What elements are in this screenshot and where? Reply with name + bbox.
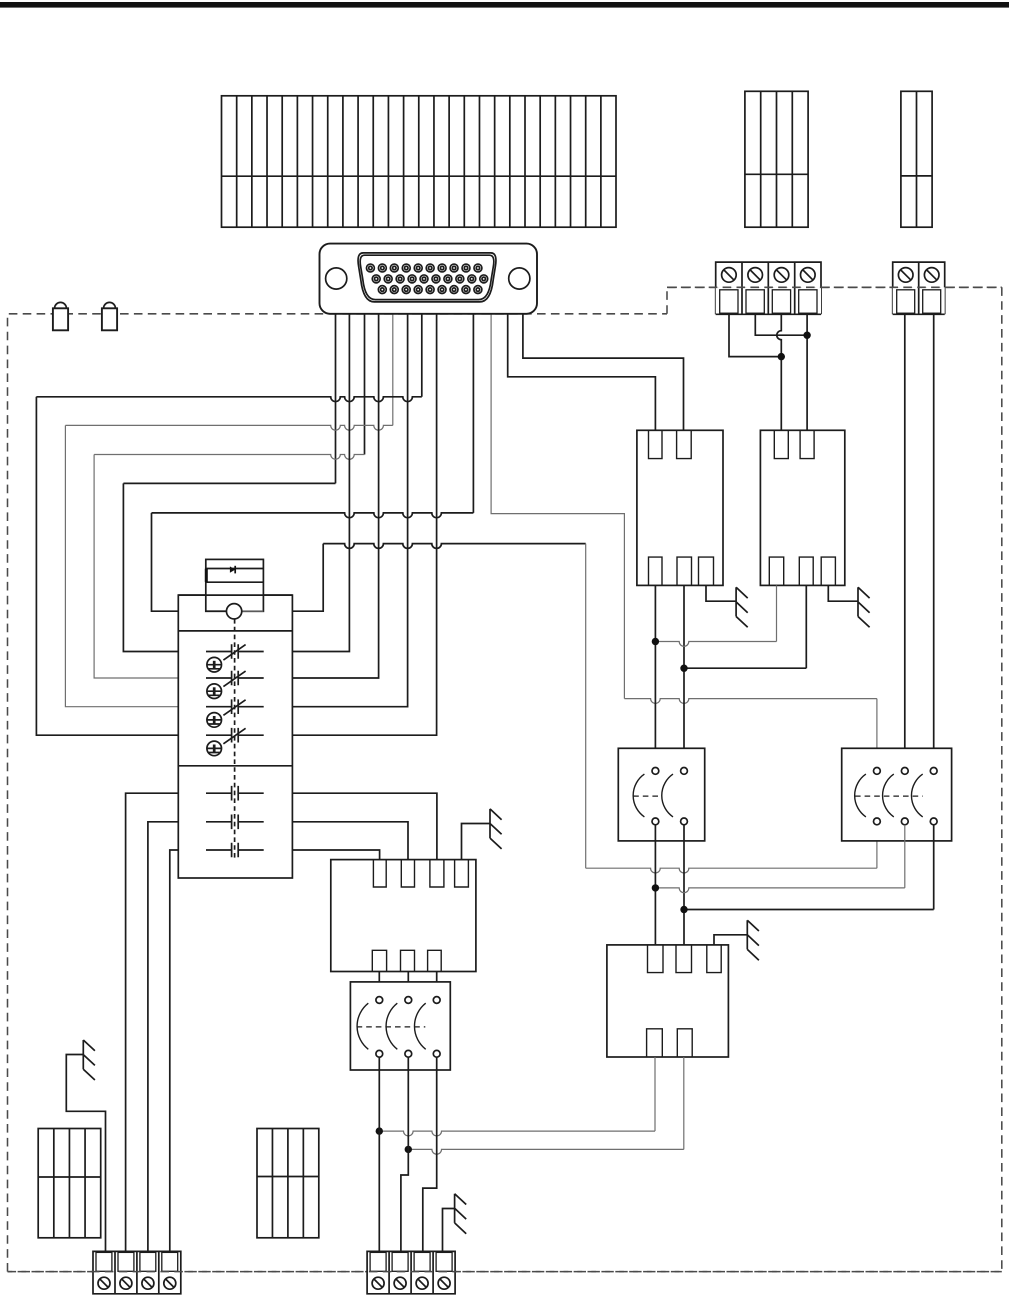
wire driver to S3 pole1 <box>378 972 380 997</box>
wire S2 pole3 link <box>684 825 934 910</box>
wire row b1 to driver A3 <box>292 793 437 859</box>
terminal block TB2 (2 screws) <box>893 262 945 314</box>
wire pin9 to wiper (net E) <box>152 310 474 611</box>
LED DS1 <box>53 302 68 330</box>
wire TB1-2 jumper <box>755 314 807 335</box>
top page rule <box>0 2 1009 8</box>
relay module K3 <box>607 945 729 1057</box>
junction dot TB1-1/3 <box>778 353 785 360</box>
chassis ground GND1 (K1) <box>736 587 748 627</box>
wire TB1-3 to K2 coil a (hops left) <box>777 314 782 430</box>
wire TB2-2 to S2 pole3 <box>933 314 935 767</box>
LED DS2 <box>102 302 117 330</box>
wire K3 out2 link (gray) <box>408 1057 684 1154</box>
wire K3 pin3 to ground <box>714 935 747 945</box>
chassis ground GND5 (TB4) <box>455 1194 467 1234</box>
variable-arrow slashes <box>223 645 245 744</box>
junction dot S1b <box>680 906 687 913</box>
wire pin11 to relay K1 coil a <box>508 310 656 430</box>
wire ground to TB3-1 <box>66 1055 105 1252</box>
wire S3 pole3 to TB4-3 <box>423 1057 437 1251</box>
terminal block TB3 (4 screws) <box>93 1251 181 1293</box>
wire wiper feedback (net F lower, gray) <box>586 544 877 873</box>
relay coil K1 <box>637 430 723 585</box>
junction dot S3a <box>376 1127 383 1134</box>
wire S3 pole1 to TB4-1 <box>378 1057 380 1251</box>
wire pin6 to row3 right <box>292 310 407 707</box>
contact block S1 (DPST) <box>618 748 704 841</box>
junction dot S1a <box>652 884 659 891</box>
chassis ground GND6 (TB3) <box>83 1040 95 1080</box>
trimmer capacitor bank plates <box>206 644 264 857</box>
legend table X5 (4 columns) <box>257 1129 319 1238</box>
wire row b3 to driver A1 <box>292 850 379 860</box>
wire pin8 to row4 right <box>292 310 436 735</box>
terminal block TB4 (4 screws) <box>367 1251 455 1293</box>
wire wiper feedback (net F upper) <box>292 544 585 612</box>
terminal block TB1 (4 screws) <box>716 262 821 314</box>
wire pin4 to row2 right <box>292 310 378 678</box>
motor M symbol (circle) <box>226 604 241 619</box>
diode D1 symbol <box>230 566 235 572</box>
wire driver to S3 pole2 <box>407 972 409 997</box>
wire pin12 to relay K1 coil b <box>523 310 684 430</box>
M1 internal link (dashed) <box>234 619 236 858</box>
pin-assignment table X1 (26 columns) <box>222 96 617 227</box>
wire pin3 stub <box>364 310 366 455</box>
wire row b1 to TB3-2 <box>126 793 179 1251</box>
contact block S3 (3PST) <box>350 982 450 1070</box>
wire K2 pin3 to ground <box>828 585 858 601</box>
diode module D1 box <box>178 559 292 611</box>
wire TB2-1 to S2 pole2 <box>904 314 906 767</box>
CN1 D-insert <box>358 253 496 302</box>
enclosure dashed border (top-left segment) <box>8 314 668 1272</box>
wire K2 pin1 link to K1 net (gray) <box>655 585 776 646</box>
CN1 mounting hole left <box>326 268 347 289</box>
wire pin2 to row1 right <box>292 310 349 652</box>
wire wiper to right (gray) <box>242 610 264 612</box>
wire S1 pole1 to K3 top1 <box>654 825 656 945</box>
chassis ground GND4 (K3) <box>747 920 759 960</box>
dashed border over TB3/TB4 <box>8 1271 1002 1273</box>
wire row b3 to TB3-4 <box>170 850 179 1251</box>
junction dot S3b <box>405 1146 412 1153</box>
adjust screw symbols <box>207 657 222 755</box>
junction dot K1a <box>652 638 659 645</box>
wire pin3 to row2 (net B) <box>94 455 364 679</box>
wire TB1-4 to K2 coil b <box>806 314 808 430</box>
connector CN1 shell <box>320 244 538 314</box>
wire driver pin4 to ground <box>462 824 491 860</box>
motor-pot unit M1 body <box>178 595 292 878</box>
pin-assignment table X3 (2 columns) <box>901 91 932 227</box>
dashed border over TB1/TB2 <box>667 286 1002 288</box>
enclosure dashed border (top-right step) <box>667 287 1002 314</box>
junction dot TB1-2/4 <box>803 332 810 339</box>
wire K1 pin3 to ground <box>706 585 736 601</box>
relay coil K2 <box>760 430 844 585</box>
wire into wiper bus <box>206 610 227 612</box>
wire K3 out1 link (gray) <box>379 1057 655 1136</box>
enclosure dashed border (right + bottom) <box>8 287 1002 1271</box>
contact block S2 (3PST) <box>842 748 952 841</box>
wire pin7 to row4 (net D) <box>36 310 421 735</box>
wire S1 pole2 to K3 top2 <box>683 825 685 945</box>
wire driver to S3 pole3 <box>436 972 438 997</box>
wire ground to TB4-4 <box>443 1209 455 1252</box>
wire K2 pin2 link <box>684 585 806 668</box>
CN1 mounting hole right <box>509 268 530 289</box>
wire TB1-1 jumper <box>729 314 781 356</box>
pin-assignment table X2 (4 columns) <box>745 91 808 227</box>
chassis ground GND2 (K2) <box>858 587 870 627</box>
wire row b2 to TB3-3 <box>148 822 178 1252</box>
CN1 pins (29 contacts) <box>366 264 487 294</box>
wire K1 pin to S1 pole1 <box>654 585 656 767</box>
wire pin5 to row3 (net C) <box>65 310 392 707</box>
wire row b2 to driver A2 <box>292 822 408 860</box>
wire S2 pole2 link (gray) <box>655 825 904 893</box>
wire S3 pole2 to TB4-2 <box>401 1057 408 1251</box>
wire pin1 to row1 (net A) <box>123 310 335 652</box>
diode box left tab <box>205 569 208 582</box>
wire K1 pin to S1 pole2 <box>683 585 685 767</box>
chassis ground GND3 (driver) <box>490 809 502 849</box>
wire pin10 to S2 contact (net G) <box>491 310 877 768</box>
junction dot K1b <box>680 665 687 672</box>
legend table X4 (4 columns) <box>38 1129 100 1238</box>
driver module A1 <box>331 860 476 972</box>
